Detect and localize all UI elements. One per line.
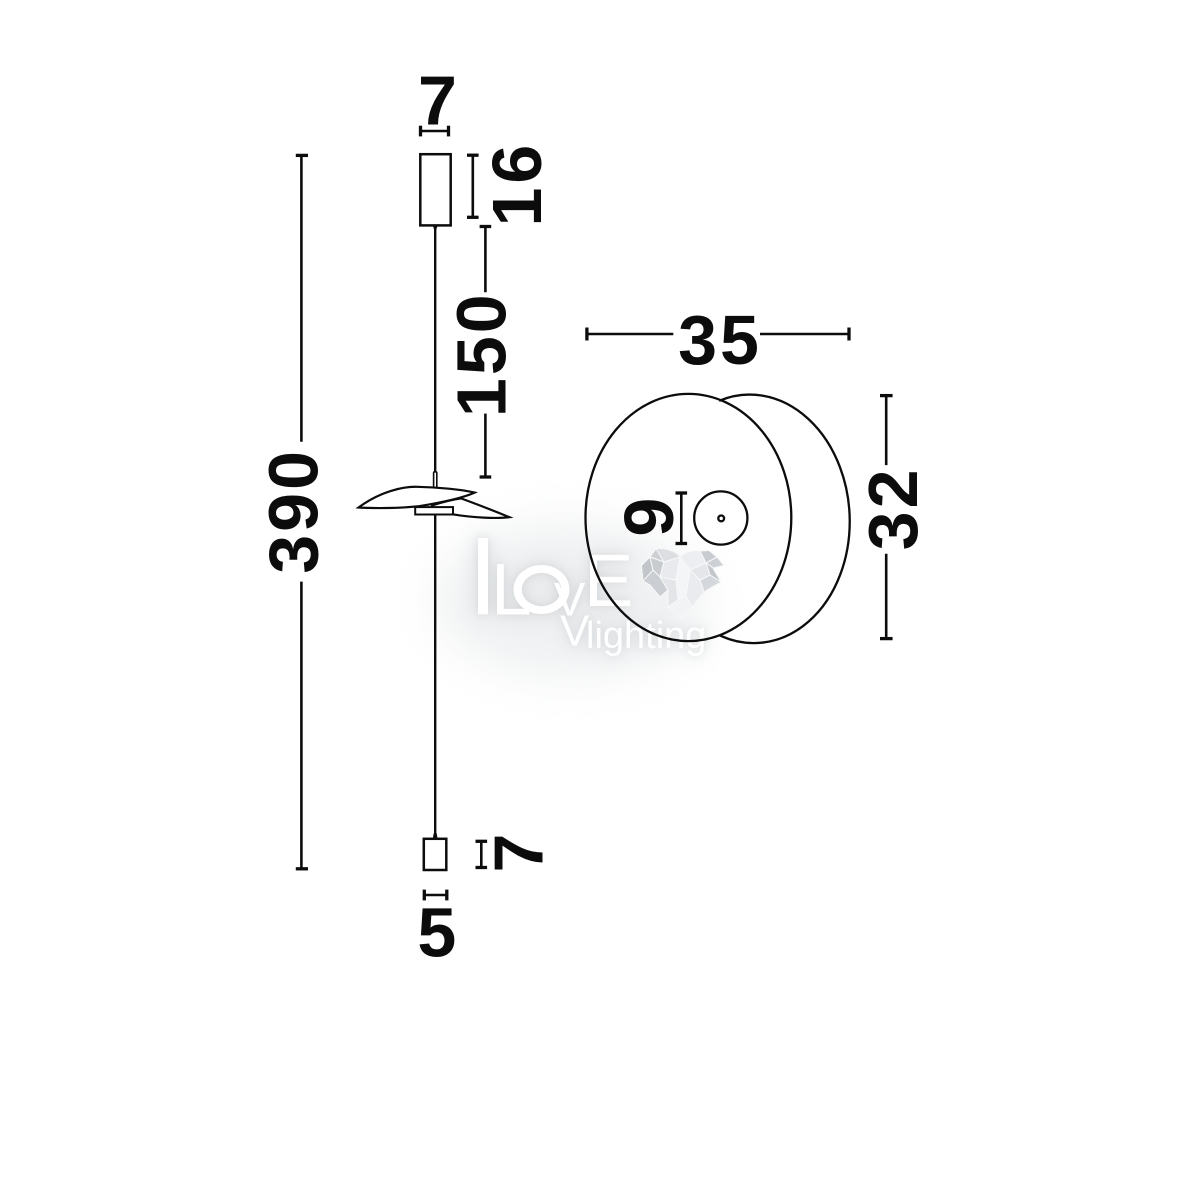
shade lower leaf [432,498,509,518]
dim line 32 [880,396,893,639]
dim line 9 [676,493,688,544]
dim line 16 [467,155,479,217]
center donut dot [718,516,724,522]
watermark heart [642,548,725,618]
left disc ellipse [586,394,792,641]
cable nipple at canopy [433,226,438,232]
svg-text:9: 9 [610,498,688,537]
dim line 7 (top) [421,126,449,137]
dim line 35 [587,328,849,341]
svg-text:16: 16 [478,141,556,227]
lower cable [434,516,436,837]
bottom cylinder [424,839,447,870]
dim line 5 [424,890,447,901]
dim line 150 [480,227,492,478]
svg-text:5: 5 [417,894,456,972]
shade upper leaf [359,487,475,508]
watermark text white [478,538,706,657]
stem above shade [434,472,437,489]
canopy cylinder [420,154,450,225]
svg-text:35: 35 [678,301,762,379]
dim line 390 [296,155,308,868]
cable nipple at bottom cylinder [433,834,438,840]
svg-text:7: 7 [418,62,457,140]
svg-text:150: 150 [443,291,521,417]
dim line 7 (bottom) [476,841,488,867]
svg-text:7: 7 [480,834,558,873]
watermark gray shadow blob [435,522,705,678]
upper cable [434,226,436,474]
center small circle [694,491,747,544]
shade hub box [415,507,453,514]
svg-text:32: 32 [854,466,932,550]
svg-text:390: 390 [255,448,333,574]
right disc rim arc [719,395,850,644]
